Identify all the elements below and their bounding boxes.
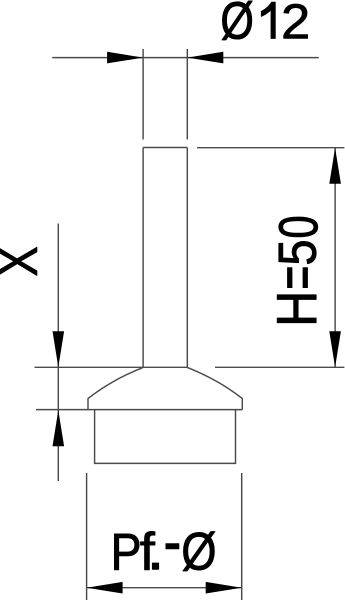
dimension H=50: bottom arrowhead [329, 331, 341, 367]
label Ø12: glyph 1 [261, 2, 275, 38]
label Pf.-Ø: glyph f [141, 531, 155, 569]
dimension H=50: top arrowhead [329, 148, 341, 184]
dome cap outline [88, 367, 242, 409]
dimension X: lower arrowhead (points up) [53, 410, 65, 446]
extension line right at stem top (H=50 top reference) [197, 147, 344, 149]
extension line left at dome bottom plus dome bottom edge [36, 409, 242, 411]
dimension Pf.-Ø: left arrowhead [87, 582, 123, 594]
dimension Ø12: right extension line [186, 49, 188, 140]
label Pf.-Ø: glyph P [114, 534, 139, 570]
dimension Pf.-Ø: right arrowhead [206, 582, 242, 594]
label Pf.-Ø: glyph period [152, 563, 158, 569]
label H=50: glyph 5 [279, 241, 316, 263]
dimension X: dimension line [57, 224, 59, 482]
label X [0, 247, 37, 275]
stem (Ø12 post) outline [143, 148, 187, 368]
dimension Ø12: left arrowhead [107, 52, 143, 64]
dimension Pf.-Ø: left extension line [86, 473, 88, 600]
dimension H=50: dimension line [334, 148, 336, 368]
label H=50: glyph H [277, 295, 316, 323]
dimension Ø12: right arrowhead [187, 52, 223, 64]
label H=50: glyph = [287, 268, 307, 288]
label Pf.-Ø: glyph Ø [183, 532, 215, 572]
collar cylinder outline (Pf.-Ø) [95, 410, 236, 464]
dimension Pf.-Ø: dimension line [87, 587, 242, 589]
label Ø12: glyph 2 [284, 4, 308, 38]
label H=50: glyph 0 [279, 217, 318, 237]
extension line left at dome top plus stem bottom edge [35, 366, 188, 368]
dimension Pf.-Ø: right extension line [241, 473, 243, 600]
extension line right at dome top (H=50 bottom reference) [215, 366, 344, 368]
dimension Ø12: left extension line [142, 49, 144, 140]
label Pf.-Ø: glyph hyphen [166, 544, 179, 549]
dimension Ø12: dimension line [52, 57, 319, 59]
label Ø12: glyph Ø [222, 1, 252, 40]
dimension X: upper arrowhead (points down) [53, 331, 65, 367]
